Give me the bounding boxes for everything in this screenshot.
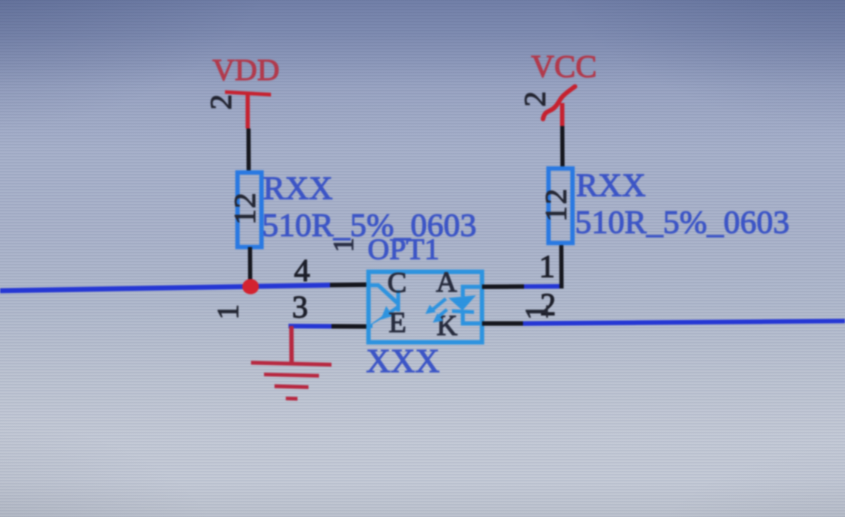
LED cathode bar bbox=[452, 309, 474, 314]
wire pin1 to R (blue) bbox=[524, 284, 560, 289]
transistor base bar bbox=[396, 290, 400, 312]
transistor collector line bbox=[369, 283, 399, 304]
pin 2 stub (black) bbox=[482, 321, 523, 326]
svg-text:3: 3 bbox=[292, 289, 308, 325]
wire VCC to R (black) bbox=[560, 126, 564, 167]
svg-text:2: 2 bbox=[517, 91, 552, 107]
resistor RXX (left) body bbox=[238, 173, 262, 248]
power port VCC wave bbox=[543, 87, 575, 120]
svg-text:RXX: RXX bbox=[263, 171, 333, 207]
ground stem (red) bbox=[289, 326, 294, 363]
wire VDD red segment bbox=[246, 93, 250, 129]
svg-text:510R_5%_0603: 510R_5%_0603 bbox=[575, 205, 790, 241]
junction dot bbox=[242, 279, 259, 294]
light arrow 2 bbox=[438, 308, 448, 317]
ground bar 2 bbox=[264, 373, 319, 378]
pin 4 stub (black) bbox=[330, 282, 367, 287]
resistor RXX (right) body bbox=[549, 169, 573, 244]
svg-text:1: 1 bbox=[210, 304, 245, 320]
LED triangle bbox=[449, 295, 477, 310]
LED cathode lead bbox=[461, 312, 482, 326]
wire up to R bottom (black) bbox=[559, 244, 563, 289]
svg-text:VCC: VCC bbox=[531, 48, 597, 84]
svg-text:XXX: XXX bbox=[366, 343, 440, 380]
wire VDD to R (black) bbox=[246, 129, 250, 171]
opto U box bbox=[369, 272, 483, 343]
transistor emitter arrowhead bbox=[381, 306, 393, 320]
wire R bottom to junction (black) bbox=[248, 247, 252, 286]
svg-text:1: 1 bbox=[328, 238, 360, 253]
power port VDD bar bbox=[225, 90, 271, 96]
svg-text:1: 1 bbox=[227, 209, 262, 225]
wire main net left (blue) bbox=[0, 283, 330, 294]
pin 1 stub (black) bbox=[482, 284, 524, 289]
svg-text:1: 1 bbox=[539, 248, 555, 284]
LED anode lead bbox=[461, 285, 482, 297]
ground bar 4 bbox=[286, 397, 298, 401]
svg-text:RXX: RXX bbox=[576, 168, 646, 204]
svg-text:2: 2 bbox=[227, 193, 262, 209]
svg-text:E: E bbox=[389, 307, 407, 339]
svg-text:A: A bbox=[436, 267, 457, 299]
ground bar 3 bbox=[275, 384, 309, 389]
svg-text:C: C bbox=[387, 267, 406, 299]
svg-text:4: 4 bbox=[294, 252, 310, 288]
wire right net (blue) bbox=[523, 319, 845, 326]
svg-text:1: 1 bbox=[538, 206, 573, 222]
wire VCC red segment bbox=[560, 103, 564, 126]
svg-text:2: 2 bbox=[538, 189, 573, 205]
pin 3 stub (black) bbox=[332, 324, 368, 329]
svg-text:VDD: VDD bbox=[212, 52, 279, 87]
svg-text:1: 1 bbox=[520, 304, 556, 321]
ground bar 1 bbox=[251, 361, 332, 367]
wire pin3 (blue) bbox=[289, 324, 332, 329]
transistor emitter line bbox=[369, 306, 399, 328]
light arrow 1 bbox=[432, 297, 447, 311]
svg-text:2: 2 bbox=[203, 94, 238, 110]
svg-text:OPT1: OPT1 bbox=[368, 233, 440, 266]
